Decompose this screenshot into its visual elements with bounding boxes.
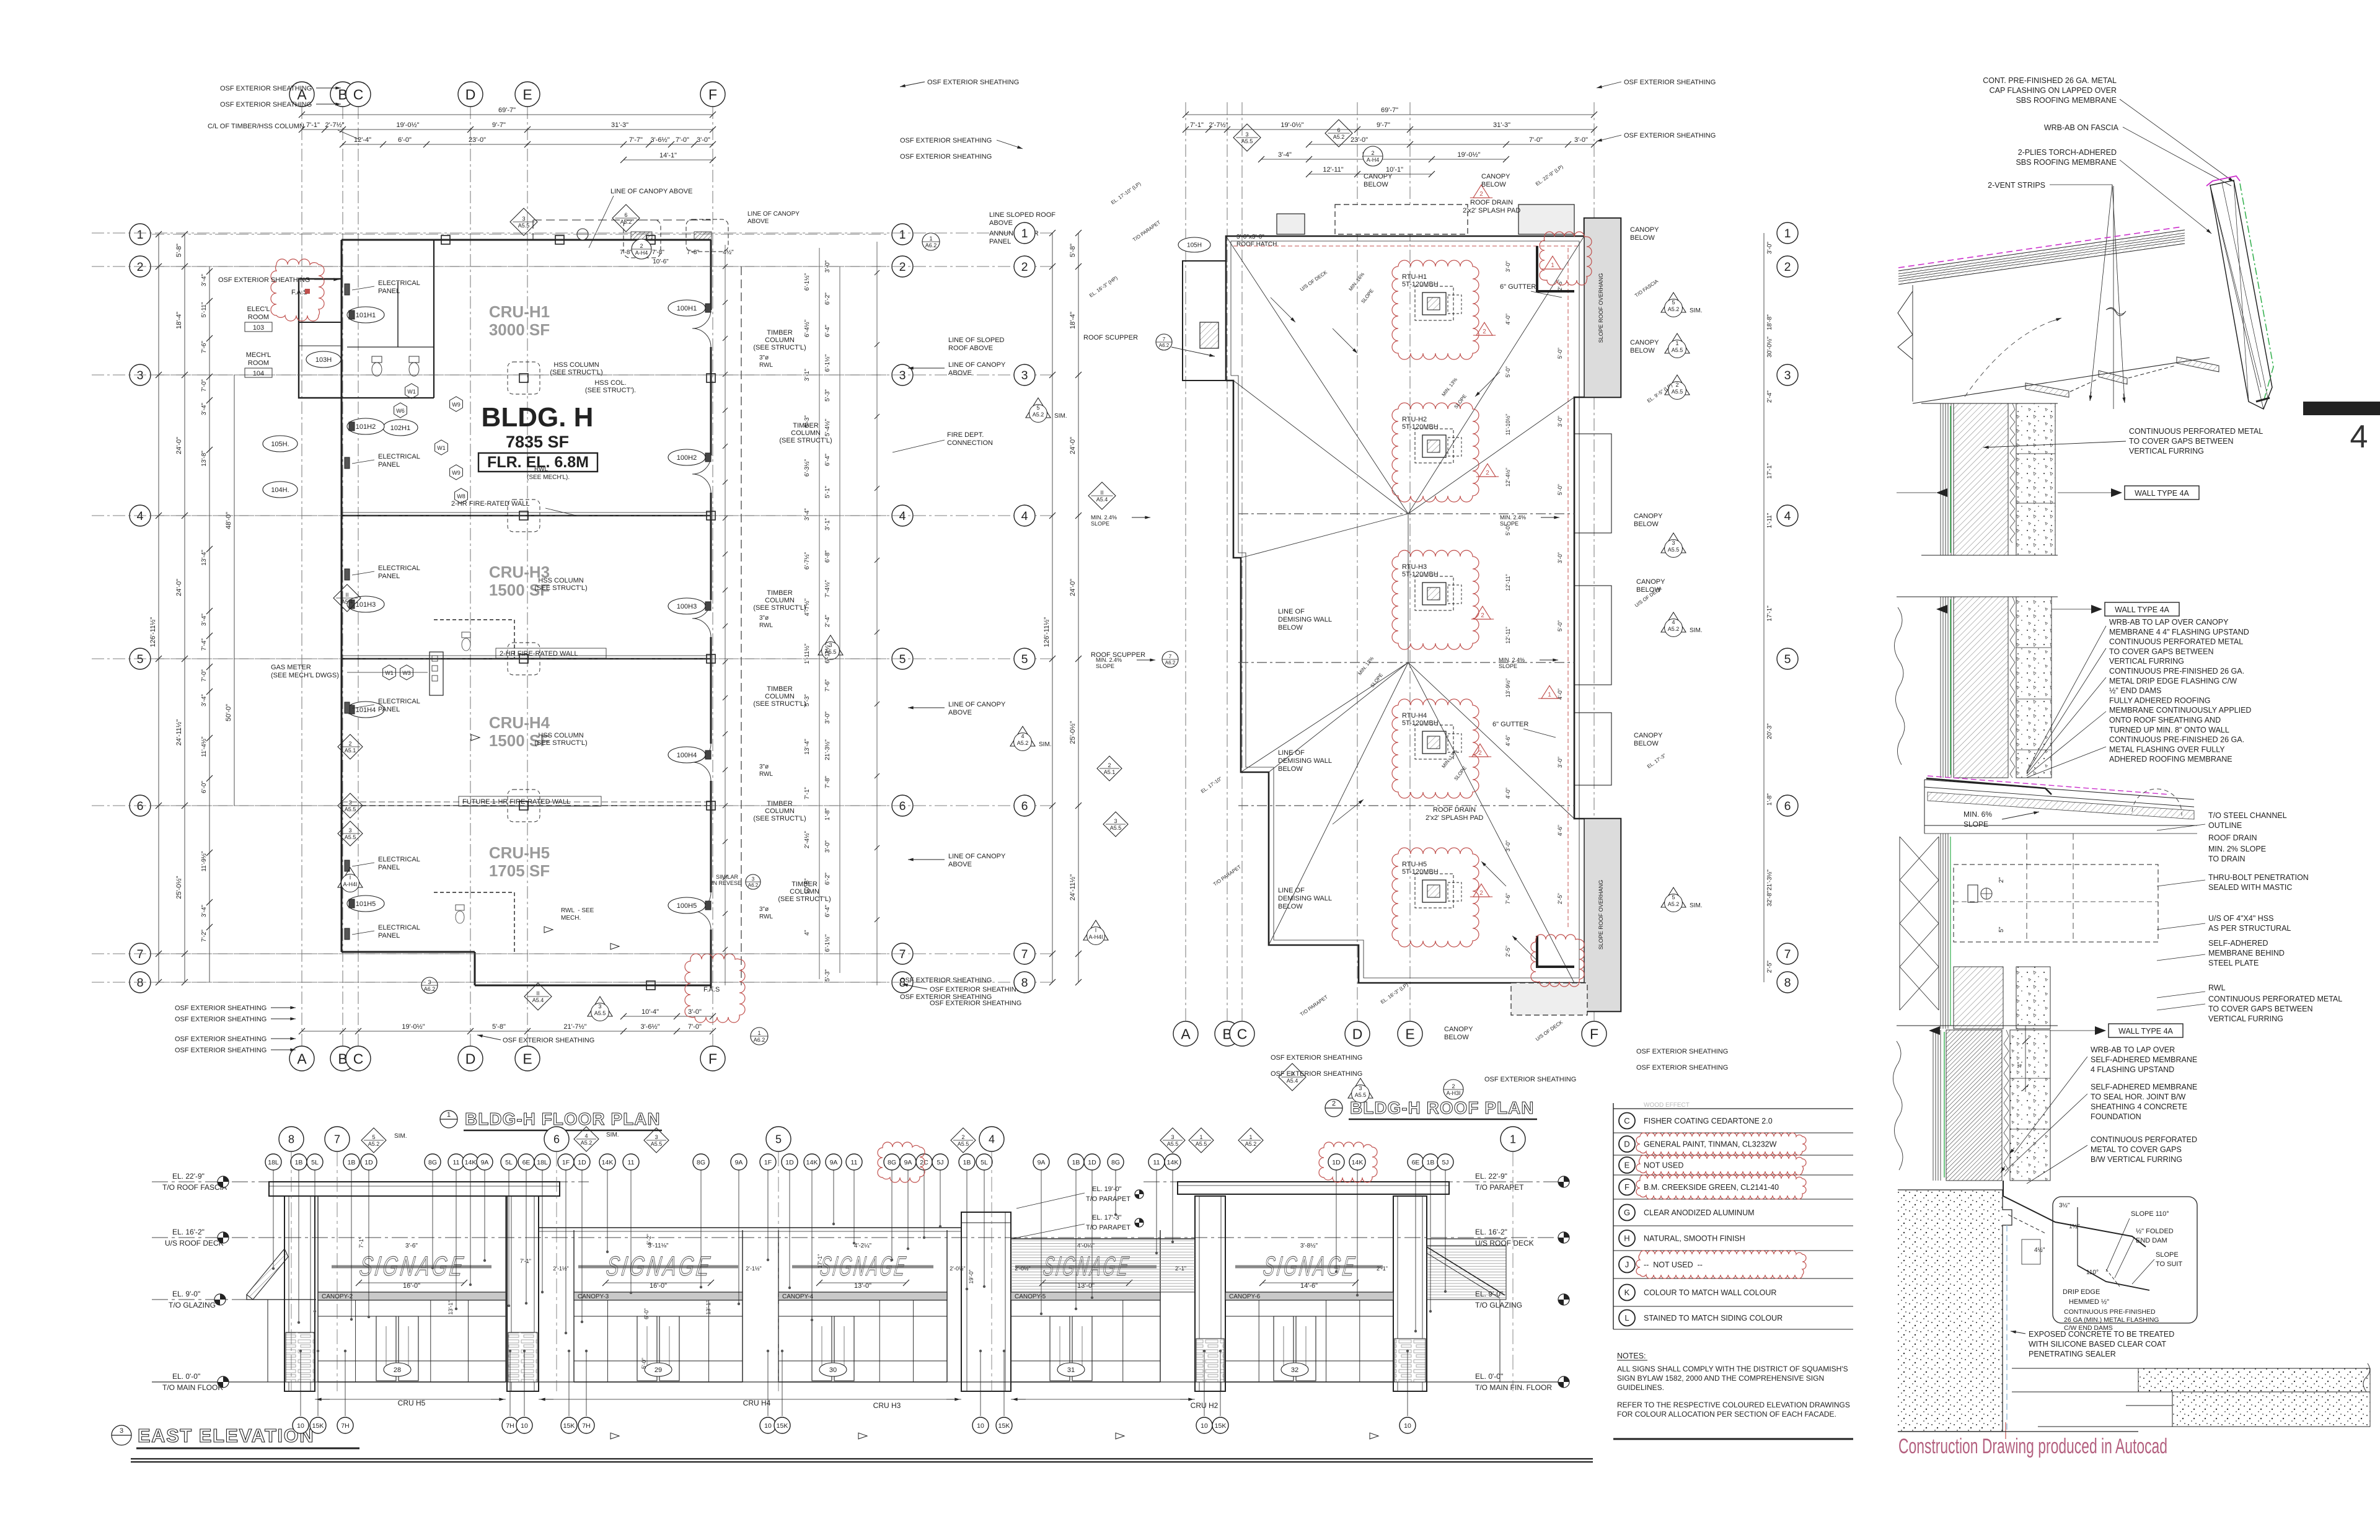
canopy below top right	[1518, 205, 1574, 234]
svg-text:5'-8": 5'-8"	[492, 1023, 506, 1031]
svg-text:BLDG-H FLOOR PLAN: BLDG-H FLOOR PLAN	[465, 1109, 661, 1129]
svg-text:2: 2	[1675, 382, 1678, 388]
exterior wall bottom	[475, 985, 711, 987]
level line roof deck	[152, 1237, 1559, 1238]
svg-text:ABOVE: ABOVE	[948, 709, 972, 716]
toilet fixture 2	[409, 356, 419, 363]
svg-text:18L: 18L	[537, 1159, 548, 1166]
svg-text:2'-7½": 2'-7½"	[1209, 121, 1228, 129]
grid bubble A top	[1173, 1021, 1198, 1046]
svg-text:104H.: 104H.	[271, 486, 289, 494]
demising wall grid4	[342, 515, 711, 517]
svg-text:30: 30	[829, 1366, 837, 1374]
svg-text:2: 2	[899, 260, 906, 274]
svg-text:OSF EXTERIOR SHEATHING: OSF EXTERIOR SHEATHING	[503, 1037, 594, 1044]
svg-text:7'-8": 7'-8"	[620, 249, 632, 256]
d3 drip edge detail box	[2053, 1197, 2197, 1323]
svg-text:SIMILAR: SIMILAR	[716, 874, 739, 880]
svg-text:3'-4": 3'-4"	[201, 905, 208, 917]
svg-text:10: 10	[1404, 1422, 1411, 1430]
grid bubble B bottom	[330, 1046, 355, 1071]
grid bubble 7 right	[892, 943, 913, 964]
svg-text:WALL TYPE 4A: WALL TYPE 4A	[2115, 605, 2169, 614]
exterior wall top	[342, 239, 711, 241]
svg-text:14K: 14K	[602, 1159, 614, 1166]
svg-text:STAINED TO MATCH SIDING COLOUR: STAINED TO MATCH SIDING COLOUR	[1644, 1314, 1783, 1322]
svg-text:RTU-H4: RTU-H4	[1402, 712, 1427, 719]
svg-text:MIN. 2.4%: MIN. 2.4%	[1096, 657, 1122, 663]
svg-text:END DAM: END DAM	[2136, 1237, 2167, 1244]
svg-text:6: 6	[137, 799, 144, 813]
grid bubble 1 left	[130, 224, 151, 245]
svg-text:WRB-AB TO LAP OVER CANOPY: WRB-AB TO LAP OVER CANOPY	[2109, 618, 2229, 627]
grid bubble 7 left	[1014, 943, 1035, 964]
future fire wall label boxed	[459, 796, 601, 806]
pylon P5 stone base	[1196, 1339, 1224, 1382]
svg-text:I: I	[350, 874, 351, 881]
roof outline	[1226, 218, 1621, 1011]
svg-text:14K: 14K	[806, 1159, 818, 1166]
d1 break line	[2113, 186, 2114, 409]
svg-text:3: 3	[522, 216, 525, 222]
svg-text:T/O PARAPET: T/O PARAPET	[1086, 1195, 1130, 1203]
svg-text:2: 2	[1784, 260, 1791, 274]
svg-text:5L: 5L	[505, 1159, 513, 1166]
svg-text:SIM.: SIM.	[394, 1133, 407, 1140]
module wall CANOPY-5	[1010, 1230, 1011, 1382]
svg-text:6'-3½": 6'-3½"	[804, 459, 811, 477]
svg-text:A5.2: A5.2	[1668, 901, 1680, 907]
grid line 2	[92, 266, 1056, 267]
svg-text:23'-0": 23'-0"	[1351, 136, 1368, 144]
svg-text:1B: 1B	[348, 1159, 356, 1166]
column 8	[646, 981, 655, 990]
wall hatch segments top	[631, 232, 652, 240]
d1 fascia black tip	[2256, 398, 2270, 402]
svg-text:F: F	[1624, 1182, 1629, 1192]
svg-text:W9: W9	[452, 402, 461, 408]
grid bubble 6 right	[1777, 795, 1798, 816]
svg-text:2: 2	[1452, 1083, 1455, 1089]
column 4	[519, 374, 528, 382]
legend row G	[1619, 1205, 1635, 1221]
svg-text:WOOD EFFECT: WOOD EFFECT	[1644, 1102, 1690, 1109]
svg-text:1: 1	[137, 228, 144, 242]
roof plan top dimension rows	[1186, 114, 1594, 115]
svg-text:EL. 22'-9": EL. 22'-9"	[172, 1172, 205, 1181]
svg-text:E: E	[522, 86, 532, 102]
svg-text:12'-11": 12'-11"	[1323, 166, 1343, 174]
exterior wall bottom-left	[342, 951, 475, 953]
svg-text:13'-4": 13'-4"	[804, 739, 811, 755]
svg-text:TO COVER GAPS BETWEEN: TO COVER GAPS BETWEEN	[2109, 647, 2214, 656]
canopy dashed line right of east wall	[741, 266, 742, 985]
svg-text:2'-1½": 2'-1½"	[553, 1265, 568, 1272]
svg-text:HSS COL.: HSS COL.	[594, 379, 626, 387]
svg-text:19'-0½": 19'-0½"	[1457, 151, 1480, 159]
svg-text:2'-7½": 2'-7½"	[325, 121, 344, 129]
svg-text:MIN. 6%: MIN. 6%	[1963, 810, 1992, 819]
svg-text:OSF EXTERIOR SHEATHING: OSF EXTERIOR SHEATHING	[220, 101, 312, 108]
canopy band CANOPY-4	[778, 1292, 947, 1300]
d1 fascia board	[2210, 180, 2272, 409]
elevation marker diamonds	[361, 1128, 386, 1153]
future fire-rated wall grid6	[342, 805, 711, 806]
svg-text:ROOF DRAIN: ROOF DRAIN	[1470, 199, 1513, 206]
svg-text:2: 2	[1478, 750, 1482, 757]
svg-text:1: 1	[447, 1111, 451, 1119]
svg-text:(SEE STRUCT'L): (SEE STRUCT'L)	[753, 604, 806, 612]
svg-text:7'-1": 7'-1"	[358, 1237, 364, 1248]
svg-text:A5.2: A5.2	[1668, 306, 1680, 312]
svg-text:7: 7	[334, 1133, 340, 1145]
svg-text:7'-1": 7'-1"	[1190, 121, 1204, 129]
svg-text:13'-4": 13'-4"	[201, 550, 208, 566]
svg-text:ROOF ABOVE: ROOF ABOVE	[948, 345, 993, 352]
pennant flags	[544, 926, 553, 933]
svg-text:CONTINUOUS PERFORATED: CONTINUOUS PERFORATED	[2091, 1135, 2197, 1144]
svg-text:OSF EXTERIOR SHEATHING: OSF EXTERIOR SHEATHING	[1271, 1054, 1362, 1062]
svg-text:105H.: 105H.	[271, 441, 289, 448]
floor plan title	[440, 1111, 457, 1128]
svg-text:A5.5: A5.5	[958, 1141, 969, 1147]
svg-text:11: 11	[851, 1159, 858, 1166]
svg-text:TO COVER GAPS BETWEEN: TO COVER GAPS BETWEEN	[2208, 1005, 2313, 1013]
svg-text:DRIP EDGE: DRIP EDGE	[2063, 1288, 2100, 1296]
grid line 7	[92, 953, 1056, 954]
svg-text:1B: 1B	[963, 1159, 971, 1166]
svg-text:FOUNDATION: FOUNDATION	[2091, 1112, 2141, 1121]
svg-text:3'-4": 3'-4"	[201, 274, 208, 286]
svg-text:10: 10	[977, 1422, 984, 1430]
tag 102H1	[383, 420, 418, 436]
svg-text:3'-0": 3'-0"	[688, 1008, 702, 1016]
column 11	[707, 654, 715, 663]
slope roof overhang strip top	[1584, 218, 1621, 397]
svg-text:3'-1": 3'-1"	[824, 518, 831, 530]
legend row H	[1619, 1230, 1635, 1246]
svg-text:11'-10½": 11'-10½"	[1505, 414, 1511, 436]
svg-text:5: 5	[1021, 653, 1028, 666]
svg-text:COLUMN: COLUMN	[765, 807, 795, 815]
rtu RTU-H3 cloud	[1392, 550, 1479, 649]
svg-text:II: II	[1100, 490, 1103, 496]
d1 soffit line	[1913, 358, 2210, 403]
grid line D	[470, 107, 471, 1046]
svg-text:-- NOT USED --: -- NOT USED --	[1644, 1261, 1703, 1269]
svg-text:WALL TYPE 4A: WALL TYPE 4A	[2118, 1027, 2173, 1036]
svg-text:A6.2: A6.2	[754, 1037, 765, 1043]
grid bubble B top	[1215, 1021, 1240, 1046]
svg-text:T/O GLAZING: T/O GLAZING	[169, 1301, 216, 1309]
legend row J	[1619, 1257, 1635, 1273]
tag 105H	[263, 436, 297, 452]
svg-text:17'-1": 17'-1"	[1766, 605, 1773, 622]
svg-text:(SEE STRUCT'L): (SEE STRUCT'L)	[534, 739, 587, 747]
svg-text:PANEL: PANEL	[989, 238, 1011, 245]
svg-text:1: 1	[1784, 227, 1791, 240]
svg-text:3'-6": 3'-6"	[405, 1243, 418, 1249]
canopy band CANOPY-3	[574, 1292, 743, 1300]
svg-text:5: 5	[775, 1133, 782, 1145]
svg-text:EL. 19'-0": EL. 19'-0"	[1092, 1186, 1122, 1193]
svg-text:(SEE MECH'L).: (SEE MECH'L).	[527, 474, 570, 481]
mid parapet line	[539, 1227, 961, 1228]
d1 wall assembly	[1940, 403, 1941, 555]
svg-text:6'-0": 6'-0"	[398, 136, 412, 144]
svg-text:F.A.S: F.A.S	[703, 986, 720, 993]
svg-text:6'-1½": 6'-1½"	[824, 934, 831, 952]
svg-text:RWL: RWL	[2208, 983, 2226, 992]
svg-text:3'-6½": 3'-6½"	[640, 1023, 659, 1031]
svg-text:13'-1": 13'-1"	[447, 1301, 454, 1315]
svg-text:SELF-ADHERED MEMBRANE: SELF-ADHERED MEMBRANE	[2091, 1083, 2197, 1091]
svg-text:VERTICAL FURRING: VERTICAL FURRING	[2208, 1014, 2283, 1023]
svg-text:9A: 9A	[481, 1159, 489, 1166]
grid bubble F bottom	[700, 1046, 725, 1071]
svg-text:24'-0": 24'-0"	[1069, 437, 1077, 454]
tag 103H	[306, 351, 341, 367]
svg-text:BELOW: BELOW	[1364, 181, 1388, 188]
svg-text:ELECTRICAL: ELECTRICAL	[378, 453, 420, 460]
grid bubble 5 left	[1014, 648, 1035, 669]
svg-text:A5.1: A5.1	[345, 747, 356, 754]
svg-text:OSF EXTERIOR SHEATHING: OSF EXTERIOR SHEATHING	[1636, 1048, 1728, 1055]
svg-text:7H: 7H	[582, 1422, 590, 1430]
door CANOPY-3	[637, 1316, 657, 1381]
svg-text:10: 10	[297, 1422, 304, 1430]
svg-text:CAP FLASHING ON LAPPED OVER: CAP FLASHING ON LAPPED OVER	[1990, 86, 2117, 95]
d2 canopy structure	[1924, 780, 2194, 799]
pylon P1	[284, 1196, 315, 1391]
red cloud FAS top-left	[271, 259, 324, 321]
svg-text:A5.2: A5.2	[368, 1141, 380, 1147]
svg-text:A: A	[1181, 1026, 1191, 1042]
right sloped canopy	[1427, 1247, 1505, 1295]
svg-text:6E: 6E	[1412, 1159, 1420, 1166]
svg-text:18'-4": 18'-4"	[1069, 312, 1077, 329]
svg-text:W1: W1	[437, 445, 446, 451]
svg-text:CONT. PRE-FINISHED 26 GA. META: CONT. PRE-FINISHED 26 GA. METAL	[1983, 76, 2117, 85]
svg-text:3'-0": 3'-0"	[1557, 757, 1563, 768]
svg-text:A5.4: A5.4	[342, 599, 353, 605]
svg-text:(SEE STRUCT').: (SEE STRUCT').	[585, 387, 636, 394]
svg-text:48'-0": 48'-0"	[225, 512, 232, 529]
svg-text:4": 4"	[804, 930, 811, 936]
canopy band CANOPY-2	[318, 1292, 506, 1300]
svg-text:1'-11½": 1'-11½"	[804, 643, 811, 664]
svg-text:A5.2: A5.2	[1017, 740, 1029, 746]
svg-text:A6.2: A6.2	[1165, 660, 1176, 666]
svg-text:4": 4"	[2017, 1062, 2024, 1068]
svg-text:7'-4": 7'-4"	[201, 638, 208, 651]
svg-text:14K: 14K	[1167, 1159, 1179, 1166]
svg-text:FUTURE 1-HR FIRE-RATED WALL: FUTURE 1-HR FIRE-RATED WALL	[462, 798, 570, 806]
svg-text:LINE OF SLOPED: LINE OF SLOPED	[948, 337, 1005, 344]
d3 slab right	[2012, 1368, 2370, 1369]
grid bubble A top	[289, 82, 314, 107]
grid bubble F top	[1582, 1021, 1606, 1046]
svg-text:5'-0": 5'-0"	[1557, 484, 1563, 495]
svg-text:4½": 4½"	[2034, 1247, 2045, 1254]
grid bubble C top	[346, 82, 371, 107]
grid bubble E bottom	[515, 1046, 540, 1071]
canopy rects right side	[1574, 434, 1611, 533]
d2 wall assembly	[1940, 597, 1941, 778]
svg-text:101H3: 101H3	[356, 601, 376, 609]
svg-text:OSF EXTERIOR SHEATHING: OSF EXTERIOR SHEATHING	[900, 993, 992, 1001]
grid bubble 8 right	[1777, 972, 1798, 993]
svg-text:CONTINUOUS PERFORATED METAL: CONTINUOUS PERFORATED METAL	[2129, 427, 2263, 436]
svg-text:C: C	[353, 1050, 364, 1067]
svg-text:OUTLINE: OUTLINE	[2208, 821, 2242, 830]
svg-text:15K: 15K	[1215, 1422, 1227, 1430]
svg-text:6'-2": 6'-2"	[646, 1234, 652, 1245]
svg-text:CONTINUOUS PRE-FINISHED: CONTINUOUS PRE-FINISHED	[2064, 1308, 2156, 1316]
svg-text:29: 29	[654, 1366, 662, 1374]
svg-text:1: 1	[1548, 692, 1551, 698]
svg-text:TIMBER: TIMBER	[767, 329, 793, 337]
svg-text:32: 32	[1291, 1366, 1298, 1374]
signage band CANOPY-4	[792, 1265, 933, 1269]
svg-text:(SEE MECH'L DWGS): (SEE MECH'L DWGS)	[271, 672, 339, 679]
svg-text:100H4: 100H4	[677, 752, 697, 759]
svg-text:2'-5": 2'-5"	[1505, 946, 1511, 957]
column 10	[707, 511, 715, 520]
FLR EL box	[478, 453, 597, 472]
svg-text:3: 3	[654, 1134, 658, 1140]
svg-text:12'-4": 12'-4"	[354, 136, 371, 144]
svg-text:25'-0½": 25'-0½"	[1069, 721, 1077, 744]
svg-text:ELECTRICAL: ELECTRICAL	[378, 924, 420, 931]
svg-text:14'-6": 14'-6"	[1300, 1282, 1318, 1290]
svg-text:2'x2' SPLASH PAD: 2'x2' SPLASH PAD	[1463, 207, 1520, 214]
svg-text:4: 4	[2350, 419, 2368, 455]
svg-text:TURNED UP MIN. 8" ONTO WALL: TURNED UP MIN. 8" ONTO WALL	[2109, 726, 2229, 734]
svg-text:5'-8": 5'-8"	[1069, 244, 1077, 257]
d3 wall assembly	[1933, 1030, 1934, 1181]
svg-text:A5.5: A5.5	[345, 834, 356, 840]
svg-text:101H5: 101H5	[356, 900, 376, 908]
svg-text:5'-3": 5'-3"	[824, 389, 831, 402]
svg-text:5'-3": 5'-3"	[804, 694, 811, 706]
svg-text:3½": 3½"	[2059, 1202, 2070, 1209]
svg-text:ROOF SCUPPER: ROOF SCUPPER	[1083, 334, 1138, 341]
svg-text:CONNECTION: CONNECTION	[947, 439, 993, 447]
svg-text:6: 6	[1021, 799, 1028, 813]
svg-text:3'-4": 3'-4"	[201, 694, 208, 706]
grid line E	[527, 107, 528, 1046]
svg-text:SBS ROOFING MEMBRANE: SBS ROOFING MEMBRANE	[2016, 96, 2117, 105]
svg-text:ADHERED ROOFING MEMBRANE: ADHERED ROOFING MEMBRANE	[2109, 755, 2232, 763]
roof plan left dimension chains	[1052, 233, 1053, 982]
svg-text:26 GA (MIN.) METAL FLASHING: 26 GA (MIN.) METAL FLASHING	[2064, 1316, 2159, 1324]
svg-text:SHEATHING 4 CONCRETE: SHEATHING 4 CONCRETE	[2091, 1102, 2187, 1111]
d1 wood blocking	[2025, 383, 2069, 397]
svg-text:4'-2¼": 4'-2¼"	[854, 1242, 872, 1249]
roof parapet inner line	[1231, 241, 1579, 978]
svg-text:W3: W3	[402, 670, 411, 676]
canopy band CANOPY-5	[1011, 1292, 1160, 1300]
exterior wall left	[341, 240, 343, 952]
svg-text:T/O STEEL CHANNEL: T/O STEEL CHANNEL	[2208, 811, 2287, 820]
svg-text:2'-4": 2'-4"	[824, 615, 831, 627]
svg-text:9A: 9A	[735, 1159, 743, 1166]
grid line 7	[152, 953, 886, 954]
svg-text:A5.5: A5.5	[1196, 1141, 1207, 1147]
svg-text:VERTICAL FURRING: VERTICAL FURRING	[2129, 447, 2204, 455]
svg-text:SLOPE 110°: SLOPE 110°	[2131, 1210, 2169, 1218]
svg-text:LINE OF CANOPY: LINE OF CANOPY	[747, 211, 800, 218]
grid line A	[1185, 102, 1186, 1046]
svg-text:6'-0": 6'-0"	[643, 1308, 650, 1319]
svg-text:SBS ROOFING MEMBRANE: SBS ROOFING MEMBRANE	[2016, 158, 2117, 167]
svg-text:3: 3	[137, 369, 144, 382]
svg-text:104: 104	[253, 370, 264, 377]
svg-text:3: 3	[598, 1003, 601, 1010]
svg-text:C: C	[1624, 1116, 1629, 1125]
svg-text:4'-6": 4'-6"	[1505, 735, 1511, 746]
svg-text:PANEL: PANEL	[378, 932, 400, 939]
svg-text:HEMMED ½": HEMMED ½"	[2069, 1298, 2109, 1306]
grid bubble 4 left	[1014, 505, 1035, 526]
svg-text:EL. 16'-2": EL. 16'-2"	[172, 1228, 205, 1236]
svg-text:7'-0": 7'-0"	[201, 379, 208, 392]
legend row K	[1619, 1285, 1635, 1301]
svg-text:LINE OF: LINE OF	[1278, 887, 1305, 894]
svg-text:9A: 9A	[904, 1159, 912, 1166]
pylon P1 stone base	[286, 1332, 314, 1382]
svg-text:2": 2"	[1998, 877, 2005, 883]
d2 black flashing	[1926, 778, 2052, 794]
svg-text:7'-6": 7'-6"	[1505, 893, 1511, 904]
svg-text:100H3: 100H3	[677, 603, 697, 610]
svg-text:7'-8": 7'-8"	[652, 249, 664, 256]
grid bubble A bottom	[289, 1046, 314, 1071]
svg-text:OSF EXTERIOR SHEATHING: OSF EXTERIOR SHEATHING	[175, 1036, 267, 1043]
svg-text:II: II	[345, 592, 348, 598]
svg-text:OSF EXTERIOR SHEATHING: OSF EXTERIOR SHEATHING	[900, 153, 992, 161]
storefront wall east with door openings	[710, 240, 712, 310]
d2 lower wall continues	[1940, 834, 1941, 1029]
svg-text:3'-0"x3'-0": 3'-0"x3'-0"	[1236, 234, 1264, 240]
svg-text:K: K	[1624, 1288, 1630, 1297]
svg-text:69'-7": 69'-7"	[498, 107, 516, 114]
svg-text:6'-11½": 6'-11½"	[824, 643, 831, 664]
grid bubble 4 right	[1777, 505, 1798, 526]
svg-text:OSF EXTERIOR SHEATHING: OSF EXTERIOR SHEATHING	[175, 1047, 267, 1054]
svg-text:8G: 8G	[428, 1159, 437, 1166]
svg-text:RWL - SEE: RWL - SEE	[561, 907, 594, 914]
svg-text:24'-11½": 24'-11½"	[1069, 874, 1077, 901]
svg-text:W9: W9	[452, 470, 461, 476]
grid bubble 1 right	[892, 224, 913, 245]
grid bubble 4 left	[130, 505, 151, 526]
svg-text:1: 1	[1249, 1134, 1252, 1140]
svg-text:3'-0": 3'-0"	[824, 711, 831, 724]
rtu RTU-H2 cloud	[1392, 403, 1479, 502]
svg-text:3'-4": 3'-4"	[1278, 151, 1292, 159]
svg-text:A6.2: A6.2	[925, 242, 937, 249]
svg-text:28: 28	[394, 1366, 401, 1374]
svg-text:GAS METER: GAS METER	[271, 664, 311, 671]
svg-text:SLOPE ROOF OVERHANG: SLOPE ROOF OVERHANG	[1598, 880, 1604, 950]
svg-text:6'-4": 6'-4"	[824, 454, 831, 466]
svg-text:24'-0": 24'-0"	[175, 437, 183, 454]
grid bubble 7 right	[1777, 943, 1798, 964]
svg-text:ELECTRICAL: ELECTRICAL	[378, 565, 420, 572]
svg-text:6'-8": 6'-8"	[824, 550, 831, 563]
